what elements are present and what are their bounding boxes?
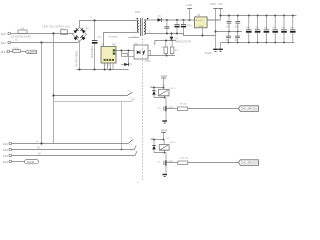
coil bottom wire stage2 (154, 150, 166, 154)
+12V power flag (186, 3, 193, 20)
node dot (166, 55, 168, 57)
wire vertical x41 (41, 43, 43, 144)
wire transformer primary return to U1 drain (104, 33, 137, 47)
secondary return wire (146, 33, 184, 35)
connector J2-2 pin (1, 32, 11, 36)
VREF flag stage2 (161, 129, 168, 139)
svg-text:J4-1: J4-1 (3, 143, 8, 146)
svg-text:MOV: MOV (60, 29, 66, 31)
wire J4-2 (12, 144, 137, 151)
mosfet Q1 (158, 98, 178, 121)
svg-text:470u: 470u (186, 26, 192, 28)
coil bottom wire stage1 (154, 96, 166, 100)
cap C13 (235, 32, 240, 44)
svg-text:AGND: AGND (27, 161, 34, 164)
svg-text:J4-4: J4-4 (3, 161, 8, 164)
coil rail stage1 (150, 86, 165, 89)
svg-text:KIA30: KIA30 (168, 160, 175, 163)
svg-text:J2-2: J2-2 (1, 33, 6, 36)
svg-text:2 B: 2 B (129, 97, 133, 99)
node dot (165, 40, 167, 42)
node dot J2-2 wire x53 (52, 32, 54, 34)
node dots power columns (215, 15, 222, 33)
wire choke to EARTH label (21, 51, 26, 53)
svg-text:2 B: 2 B (129, 138, 133, 140)
+5V power flag (218, 2, 223, 20)
wire J2-1 to bridge AC2 (11, 41, 80, 42)
svg-text:+12V: +12V (186, 3, 193, 7)
svg-text:KIA30: KIA30 (168, 106, 175, 109)
svg-text:J2-3: J2-3 (1, 51, 6, 54)
wire R top rail (155, 41, 176, 46)
net label CN5_SMC100 (239, 106, 259, 112)
gate resistor R9 (178, 103, 188, 110)
connector J4-3 (3, 154, 12, 158)
electrolytic C7 (174, 20, 179, 34)
coil rail stage2 (150, 138, 164, 141)
zener VR2 (121, 51, 133, 67)
secondary rectifier D1 (146, 16, 161, 22)
connector J2-1 pin (1, 41, 11, 45)
connector J4-4 (3, 160, 12, 164)
svg-text:J4-3: J4-3 (3, 155, 8, 158)
node dots secondary return (166, 33, 178, 35)
svg-text:CN6_SMC100: CN6_SMC100 (241, 161, 258, 165)
cap bank top rail (221, 15, 297, 17)
ground stage1 (162, 120, 167, 123)
svg-text:CN5_SMC100: CN5_SMC100 (241, 107, 258, 111)
controller IC U1 (101, 44, 117, 67)
wire gate feed 1 (52, 91, 132, 97)
node dot rail x94.5 (93, 19, 95, 21)
mosfet Q2 (158, 153, 178, 174)
svg-text:VREF: VREF (161, 129, 168, 132)
svg-text:EARTH: EARTH (28, 51, 37, 54)
wire gate feed 2 light (54, 97, 135, 102)
relay K1 (159, 85, 177, 96)
svg-text:+5V: +5V (218, 2, 223, 6)
relay K2 (159, 138, 176, 150)
wire U1 to opto (116, 50, 134, 52)
wire bridge top to rail (80, 21, 137, 28)
cap C10 (226, 15, 231, 33)
VREF flag stage1 (161, 75, 168, 88)
svg-text:DC RTN 395V: DC RTN 395V (76, 51, 79, 67)
isolation divider dashed (142, 39, 144, 182)
svg-text:J2-1: J2-1 (1, 42, 6, 45)
R4 (170, 41, 178, 56)
electrolytic CE3 (264, 15, 270, 44)
gate resistor R10 (178, 157, 189, 164)
regulator U2 (195, 14, 208, 28)
svg-text:TR1: TR1 (135, 10, 140, 14)
flyback diode D5 (152, 88, 156, 98)
fuse F1 (18, 27, 27, 33)
flyback diode D6 (152, 140, 156, 153)
svg-text:400V 68uF: 400V 68uF (91, 45, 94, 58)
node dot J2-1 x41 (40, 41, 42, 43)
node dots on ground wire (79, 69, 112, 71)
wire vertical x53 (53, 34, 55, 144)
bridge rectifier B1 (73, 27, 90, 41)
cap bank mid rail (216, 31, 243, 33)
svg-text:R9 4k3: R9 4k3 (180, 103, 188, 105)
cap bank bottom rail (221, 42, 295, 44)
zener D4 (170, 34, 192, 44)
electrolytic CE5 (281, 15, 287, 44)
net flag EARTH (25, 50, 37, 54)
net label AGND (25, 160, 39, 165)
svg-text:DGND: DGND (205, 53, 212, 55)
svg-text:2 B: 2 B (128, 91, 132, 93)
connector J4-2 (3, 148, 12, 152)
wire J4-4 to AGND (12, 161, 25, 163)
ground stage2 (162, 174, 167, 177)
+3V3 power flag (210, 2, 218, 49)
bulk cap C5 (91, 21, 101, 70)
light vertical x121 (121, 102, 123, 150)
node dots on output rail (166, 19, 191, 21)
U1 pin leads (105, 63, 113, 70)
primary ground wire (77, 69, 129, 71)
opto left bottom stub (129, 56, 135, 58)
R3 (161, 41, 168, 56)
svg-text:2A: 2A (38, 152, 41, 155)
svg-text:2A: 2A (37, 147, 40, 150)
resistor R2 (122, 51, 128, 57)
electrolytic C8 (181, 20, 192, 36)
wire J2-2 to fuse (11, 33, 19, 35)
optocoupler U3 (134, 42, 151, 63)
transformer TR1 (129, 10, 152, 38)
wire J4-1 (12, 138, 134, 145)
cap C12 (226, 32, 231, 44)
svg-text:SMAJ5.0CA-TR: SMAJ5.0CA-TR (175, 40, 192, 43)
svg-text:N: N (16, 39, 18, 42)
connector J4-1 (3, 142, 12, 146)
wire R9 to net label (188, 108, 239, 110)
output cap C6 (164, 20, 169, 34)
cap C11 (235, 15, 240, 33)
svg-text:G5V-1: G5V-1 (170, 142, 177, 144)
wire J4-3 (12, 150, 137, 156)
regulator gnd return wire (184, 34, 216, 36)
svg-text:+3V3: +3V3 (210, 2, 217, 6)
wire bridge bottom down (79, 41, 81, 69)
svg-text:4N35: 4N35 (145, 60, 151, 63)
svg-text:G5V-1: G5V-1 (170, 88, 177, 90)
electrolytic CE6 (290, 15, 296, 43)
electrolytic CE1 (246, 15, 252, 44)
svg-text:GND: GND (199, 26, 204, 28)
svg-text:J4-2: J4-2 (3, 149, 8, 152)
ground sec 1 (213, 49, 218, 52)
ground sec 2 (218, 43, 223, 52)
wire opto emitter row (148, 55, 175, 57)
connector J2-3 pin (1, 50, 10, 54)
node dot (202, 35, 204, 37)
opto right pins (148, 51, 151, 56)
electrolytic CE2 (255, 15, 261, 44)
net label CN6_SMC100 (239, 160, 259, 166)
svg-text:IN OUT: IN OUT (195, 20, 203, 22)
U2 gnd lead (202, 28, 204, 36)
wire fuse to bridge AC1 (27, 33, 73, 35)
svg-text:LR SUB MCILRATI: LR SUB MCILRATI (11, 35, 32, 38)
wire J2-3 (10, 51, 13, 53)
secondary output rail (161, 19, 220, 21)
MOV RV1 on AC line (61, 30, 68, 35)
svg-text:TNY: TNY (112, 44, 117, 47)
wire R10 to net label (188, 162, 239, 164)
choke FB1 (13, 48, 21, 52)
svg-text:CBM 78D NERTA 2SA: CBM 78D NERTA 2SA (42, 26, 70, 29)
svg-text:CM05: CM05 (13, 48, 20, 50)
node dots (121, 50, 130, 52)
electrolytic CE4 (272, 15, 278, 44)
svg-text:R10 4k3: R10 4k3 (180, 157, 189, 159)
svg-text:Snubber: Snubber (109, 36, 118, 39)
U2 out wire (207, 19, 220, 21)
